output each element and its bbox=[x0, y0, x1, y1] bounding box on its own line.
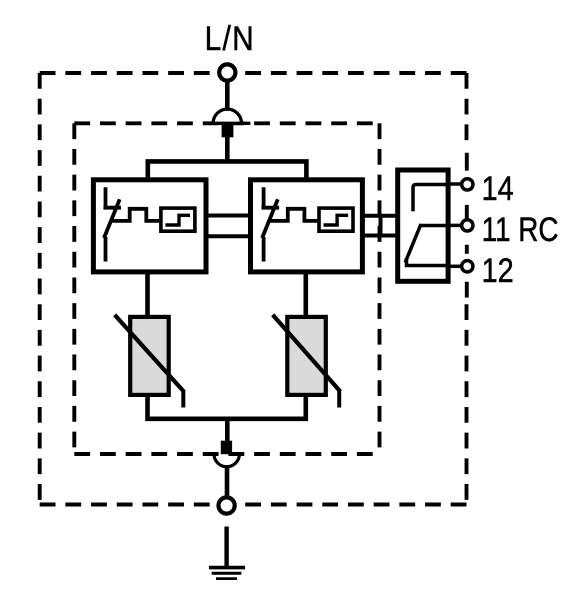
plug-in contact top: base line bbox=[207, 122, 250, 125]
spark gap arrester unit 2: outline box bbox=[251, 180, 363, 272]
terminal ground side bbox=[219, 497, 235, 513]
varistor MOV1 body bbox=[130, 317, 169, 395]
wire from terminal L/N down to top plug contact bbox=[225, 81, 230, 111]
unit 2 status indicator box bbox=[319, 208, 353, 231]
unit 2 disconnector: blade bbox=[262, 199, 278, 238]
unit 2 status indicator step-function symbol bbox=[324, 215, 349, 225]
RC contact movable blade bbox=[405, 224, 421, 263]
wire unit 1 to varistor MOV1 bbox=[145, 271, 150, 316]
RC contact 12 branch bbox=[407, 258, 449, 266]
wire varistor MOV1 to bottom bus bbox=[148, 396, 306, 419]
plug-in contact top: pin (filled square) bbox=[222, 124, 234, 137]
terminal 11 bbox=[462, 220, 473, 231]
unit 1 disconnector: blade bbox=[104, 199, 120, 238]
wire bottom bus to bottom plug contact bbox=[225, 417, 230, 443]
inner dashed enclosure (plug-in protection module boundary) bbox=[74, 123, 379, 454]
RC contact 11 branch (common) bbox=[421, 224, 449, 228]
plug-in contact bottom: pin (filled square) bbox=[221, 441, 232, 455]
white gap masks around terminals bbox=[214, 60, 471, 519]
outer dashed enclosure (device boundary) bbox=[40, 73, 467, 505]
plug-in contact bottom: socket dome bbox=[214, 454, 239, 467]
ground symbol bar 3 bbox=[216, 577, 237, 580]
plug-in contact top: socket dome bbox=[213, 109, 241, 123]
unit 2 disconnector: bottom stub bbox=[262, 237, 266, 262]
terminal 12 bbox=[462, 261, 473, 272]
svg-text:11 RC: 11 RC bbox=[482, 210, 559, 248]
linkage rail lower between unit 2 and remote contact bbox=[362, 234, 397, 238]
varistor MOV1 diagonal stroke bbox=[115, 315, 185, 392]
stub wire to terminal 11 bbox=[450, 224, 461, 228]
svg-text:14: 14 bbox=[482, 170, 514, 208]
ground symbol bar 2 bbox=[212, 572, 242, 575]
remote signalling changeover contact RC: outline box bbox=[398, 170, 448, 281]
unit 1 status indicator step-function symbol bbox=[165, 215, 190, 225]
stub wire to terminal 14 bbox=[450, 182, 461, 186]
stub wire to terminal 12 bbox=[450, 265, 461, 269]
unit 1 disconnector: bottom stub bbox=[104, 237, 108, 262]
ground symbol bar 1 bbox=[209, 566, 245, 570]
wire top bus joining arrester units bbox=[148, 161, 307, 180]
earth conductor bbox=[224, 527, 228, 569]
linkage rail upper between unit 2 and remote contact bbox=[362, 214, 397, 218]
varistor MOV2 body bbox=[287, 317, 326, 395]
wire from top plug contact to top bus bbox=[225, 136, 230, 163]
linkage rail lower between unit 1 and unit 2 bbox=[205, 234, 252, 238]
junction post on inner boundary between rails bbox=[379, 214, 383, 238]
linkage rail upper between unit 1 and unit 2 bbox=[205, 214, 252, 218]
unit 1 thermal trip link (stepped line) bbox=[111, 209, 159, 221]
unit 2 thermal trip link (stepped line) bbox=[269, 209, 317, 221]
wire from bottom plug contact to ground terminal bbox=[225, 467, 230, 496]
varistor MOV2 diagonal tail bbox=[337, 390, 341, 408]
terminal L/N bbox=[219, 64, 235, 80]
wire unit 2 to varistor MOV2 bbox=[303, 271, 308, 316]
svg-text:L/N: L/N bbox=[205, 19, 256, 57]
unit 1 disconnector: top stub bbox=[103, 187, 121, 207]
svg-text:12: 12 bbox=[482, 251, 514, 290]
terminal 14 bbox=[462, 179, 473, 190]
unit 1 status indicator box bbox=[161, 208, 195, 231]
varistor MOV2 diagonal stroke bbox=[273, 315, 341, 392]
RC contact 14 branch (fixed contact) bbox=[413, 185, 449, 212]
unit 2 disconnector: top stub bbox=[262, 187, 280, 207]
varistor MOV1 diagonal tail bbox=[181, 390, 185, 408]
hand-placed dashes on right boundary at terminal strip bbox=[465, 153, 469, 298]
spark gap arrester unit 1: outline box bbox=[93, 180, 206, 272]
